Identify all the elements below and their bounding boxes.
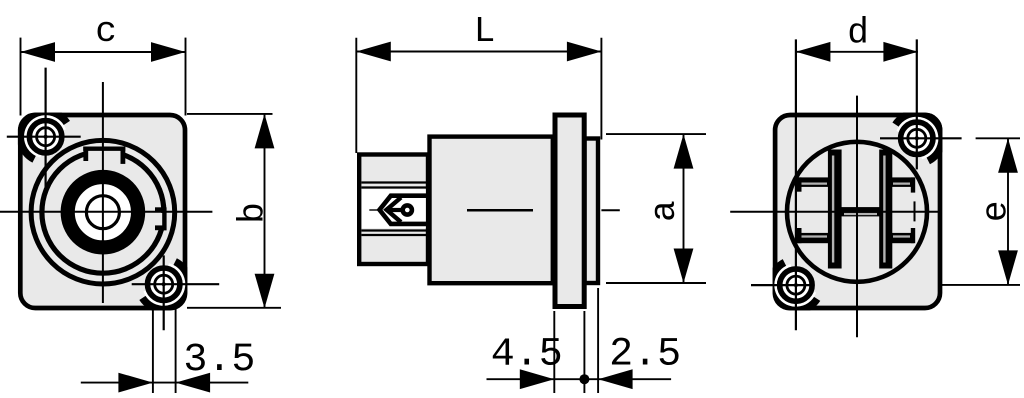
latch hook inner notch [387,198,402,223]
svg-text:c: c [95,11,117,52]
latch pivot pin [403,205,412,214]
dimension line L [356,51,601,53]
extension lines L [355,38,357,153]
svg-text:L: L [474,11,496,52]
front view outer barrel circle [31,140,175,284]
rear view flange plate [775,115,940,308]
svg-text:e: e [976,200,1017,222]
svg-text:d: d [847,13,869,54]
extension lines 3.5 [152,307,154,394]
front view flange plate [20,115,185,308]
dimension line a [683,134,685,283]
side view latch housing block [359,155,428,265]
arrowheads c [21,42,56,62]
front view center bushing circle [86,196,119,229]
mounting screw front bottom-right [143,263,188,309]
arrowheads b [255,114,275,148]
arrowheads 3.5 [118,373,152,393]
svg-text:b: b [232,202,273,224]
front view middle ring [42,151,164,273]
front view thick contact annulus [68,177,138,247]
rear contact pattern [828,150,842,269]
extension lines a [606,133,706,135]
front view main centerlines [0,211,212,213]
mounting screw front top-left [21,112,66,158]
lock notch outline [162,208,166,231]
latch centerline tick [369,209,381,211]
extension lines b [187,113,273,115]
front view inner white disc [74,184,131,241]
svg-text:2.5: 2.5 [609,333,681,378]
keyway tab cover [85,147,121,161]
svg-text:3.5: 3.5 [183,338,255,383]
arrowheads L [356,42,391,62]
side view main body [430,137,553,284]
dimension junction dot [579,374,589,384]
dimension line d [796,51,918,53]
dimension line e [1007,138,1009,285]
latch spring white band [362,189,426,228]
dimension line 4.5 2.5 [487,378,672,380]
arrowheads 4.5 2.5 [520,369,555,389]
svg-text:a: a [644,200,685,222]
svg-text:4.5: 4.5 [491,333,563,378]
arrowheads d [796,42,831,62]
latch housing ribs [362,181,427,183]
dimension line b [264,114,266,308]
side view rear bushing [585,139,599,284]
dimension line c [21,51,186,53]
rear view barrel circle [787,142,927,282]
arrowheads e [998,138,1018,173]
dimension line 3.5 [81,382,249,384]
extension lines e [976,137,1020,139]
extension lines 4.5 and 2.5 [553,311,555,393]
side view panel flange plate [555,115,584,307]
side view center mark [467,209,533,212]
lock notch cover [151,213,167,226]
side view centerline right tick [601,209,619,211]
rear view centerlines [730,211,940,213]
extension lines c [20,38,22,116]
mounting screw rear bottom-left [772,263,817,309]
latch hook stem [388,208,403,212]
mounting screw rear top-right [896,114,941,160]
latch hook outline [380,196,427,224]
arrowheads a [674,134,694,169]
keyway tab outline [83,146,125,150]
